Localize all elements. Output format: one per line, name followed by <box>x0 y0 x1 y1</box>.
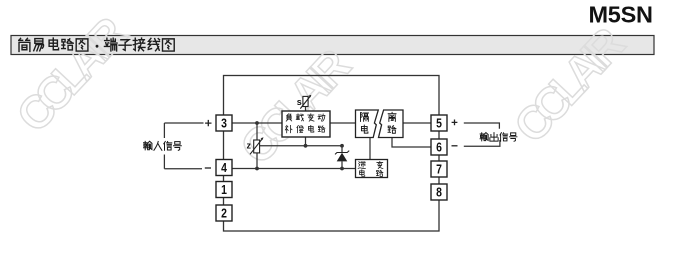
svg-text:CCLAIR: CCLAIR <box>230 39 361 174</box>
svg-text:6: 6 <box>436 140 442 154</box>
svg-text:CCLAIR: CCLAIR <box>6 7 137 142</box>
svg-text:z: z <box>247 141 252 151</box>
svg-text:5: 5 <box>436 116 442 130</box>
svg-text:4: 4 <box>221 161 227 175</box>
svg-text:2: 2 <box>221 206 227 220</box>
svg-text:1: 1 <box>221 183 227 197</box>
svg-text:3: 3 <box>221 116 227 130</box>
svg-text:7: 7 <box>436 162 442 176</box>
svg-text:s: s <box>297 97 302 107</box>
svg-text:M5SN: M5SN <box>589 2 654 28</box>
svg-text:8: 8 <box>436 185 442 199</box>
